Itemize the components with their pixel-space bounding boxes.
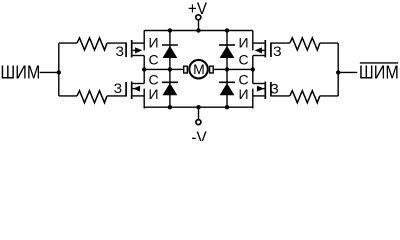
svg-text:-V: -V <box>191 129 206 141</box>
resistor R4 <box>290 91 320 103</box>
junction right branch split <box>336 70 340 74</box>
transistor VT4 (lower-right N-MOSFET) drain lead <box>253 83 265 85</box>
svg-text:И: И <box>148 86 158 102</box>
wire branch to R2 <box>59 95 77 97</box>
wire R4 to branch <box>320 95 338 97</box>
wire branch to R1 <box>59 42 77 44</box>
junction left column motor node <box>168 67 172 71</box>
wire bottom -V rail <box>144 106 253 108</box>
wire right diode column <box>226 31 228 108</box>
transistor VT4 (lower-right N-MOSFET) gate bar <box>270 82 272 97</box>
svg-text:З: З <box>270 80 278 96</box>
wire ShIM right <box>338 71 357 73</box>
svg-text:З: З <box>273 43 281 59</box>
wire motor right <box>214 68 227 70</box>
transistor VT2 (lower-left N-MOSFET) drain lead <box>133 83 145 85</box>
transistor VT3 (upper-right P-MOSFET) channel bar <box>264 40 266 58</box>
terminal +V circle <box>196 15 201 20</box>
diode VD2 (lower-left) cathode bar <box>162 81 178 83</box>
junction left column bottom rail <box>168 105 172 109</box>
transistor VT3 (upper-right P-MOSFET) drain lead <box>253 55 265 57</box>
svg-text:ШИМ: ШИМ <box>0 63 40 83</box>
wire left branch vertical <box>58 43 60 96</box>
wire right drain node to diode column <box>227 68 253 70</box>
resistor R1 <box>77 38 107 50</box>
wire motor left <box>170 68 183 70</box>
transistor VT3 (upper-right P-MOSFET) bulk-source riser <box>252 31 254 51</box>
junction +V rail <box>196 28 200 32</box>
motor M1 right brush <box>210 66 214 73</box>
transistor VT1 (upper-left P-MOSFET) channel bar <box>131 40 133 58</box>
diode VD3 (upper-right) cathode bar <box>219 44 235 46</box>
wire gate VT3 to R3 <box>271 42 290 44</box>
transistor VT2 (lower-left N-MOSFET) channel bar <box>131 82 133 100</box>
transistor VT1 (upper-left P-MOSFET) drain riser <box>143 56 145 70</box>
wire R3 to branch <box>320 42 338 44</box>
wire +V to rail <box>198 21 200 31</box>
transistor VT2 (lower-left N-MOSFET) gate bar <box>125 82 127 97</box>
svg-text:ШИМ: ШИМ <box>359 63 399 83</box>
transistor VT1 (upper-left P-MOSFET) drain lead <box>133 55 145 57</box>
transistor VT1 (upper-left P-MOSFET) bulk arrow head <box>135 47 142 53</box>
transistor VT4 (lower-right N-MOSFET) source lead <box>253 95 265 97</box>
junction right column motor node <box>225 67 229 71</box>
transistor VT1 (upper-left P-MOSFET) source lead <box>133 42 145 44</box>
wire R2 to gate VT2 <box>107 95 126 97</box>
transistor VT4 (lower-right N-MOSFET) drain riser <box>252 70 254 84</box>
transistor VT4 (lower-right N-MOSFET) bulk-source riser <box>252 89 254 109</box>
resistor R2 <box>77 91 107 103</box>
diode VD4 (lower-right) cathode bar <box>219 81 235 83</box>
junction left column top rail <box>168 28 172 32</box>
diode VD4 (lower-right) anode triangle <box>220 83 235 95</box>
wire R1 to gate VT1 <box>107 42 126 44</box>
diode VD2 (lower-left) anode triangle <box>163 83 178 95</box>
svg-text:И: И <box>238 35 248 51</box>
svg-text:С: С <box>148 52 158 68</box>
junction left branch split <box>57 70 61 74</box>
wire top +V rail <box>144 30 253 32</box>
wire left diode column <box>169 31 171 108</box>
transistor VT2 (lower-left N-MOSFET) bulk arrow head <box>133 86 140 92</box>
transistor VT4 (lower-right N-MOSFET) bulk arrow stub <box>259 88 265 90</box>
transistor VT2 (lower-left N-MOSFET) bulk arrow stub <box>133 88 139 90</box>
svg-text:З: З <box>114 80 122 96</box>
wire ShIM left <box>40 71 59 73</box>
wire gate VT4 to R4 <box>271 95 290 97</box>
junction right column top rail <box>225 28 229 32</box>
resistor R3 <box>290 38 320 50</box>
transistor VT3 (upper-right P-MOSFET) gate bar <box>270 43 272 58</box>
transistor VT3 (upper-right P-MOSFET) drain riser <box>252 56 254 70</box>
motor M1 left brush <box>184 66 188 73</box>
transistor VT2 (lower-left N-MOSFET) drain riser <box>143 70 145 84</box>
transistor VT4 (lower-right N-MOSFET) channel bar <box>264 82 266 100</box>
junction VT3/VT4 drain node <box>251 67 255 71</box>
diode VD1 (upper-left) cathode bar <box>162 44 178 46</box>
svg-text:С: С <box>238 52 248 68</box>
diode VD3 (upper-right) anode triangle <box>220 46 235 58</box>
junction VT1/VT2 drain node <box>142 67 146 71</box>
transistor VT1 (upper-left P-MOSFET) bulk arrow stub <box>133 49 139 51</box>
svg-text:И: И <box>148 35 158 51</box>
transistor VT1 (upper-left P-MOSFET) gate bar <box>125 43 127 58</box>
transistor VT4 (lower-right N-MOSFET) bulk arrow head <box>257 86 264 92</box>
svg-text:M: M <box>193 61 205 77</box>
wire right branch vertical <box>337 43 339 96</box>
transistor VT2 (lower-left N-MOSFET) bulk-source riser <box>143 89 145 109</box>
overline right ShIM <box>360 62 398 64</box>
diode VD1 (upper-left) anode triangle <box>163 46 178 58</box>
junction -V rail <box>196 105 200 109</box>
transistor VT1 (upper-left P-MOSFET) bulk-source riser <box>143 31 145 51</box>
terminal -V circle <box>196 120 201 125</box>
motor M1 body circle <box>189 60 208 79</box>
wire left drain node to diode column <box>144 68 170 70</box>
transistor VT3 (upper-right P-MOSFET) bulk arrow stub <box>259 49 265 51</box>
svg-text:И: И <box>238 86 248 102</box>
transistor VT3 (upper-right P-MOSFET) source lead <box>253 42 265 44</box>
transistor VT2 (lower-left N-MOSFET) source lead <box>133 95 145 97</box>
wire rail to -V <box>198 107 200 119</box>
svg-text:З: З <box>115 43 123 59</box>
transistor VT3 (upper-right P-MOSFET) bulk arrow head <box>255 47 262 53</box>
junction right column bottom rail <box>225 105 229 109</box>
